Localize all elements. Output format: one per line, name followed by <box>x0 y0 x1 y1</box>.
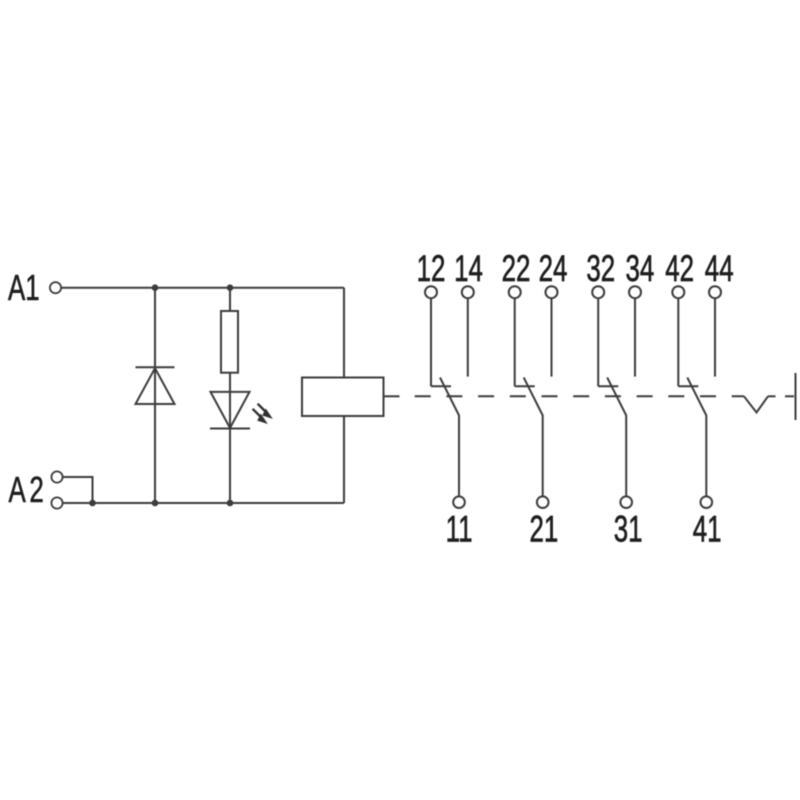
svg-text:14: 14 <box>454 247 483 289</box>
svg-text:11: 11 <box>446 508 473 550</box>
svg-text:24: 24 <box>539 247 568 289</box>
svg-text:22: 22 <box>502 247 531 289</box>
svg-text:32: 32 <box>586 247 615 289</box>
svg-text:A2: A2 <box>9 470 44 510</box>
svg-text:42: 42 <box>665 247 694 289</box>
svg-text:21: 21 <box>529 508 558 550</box>
svg-text:31: 31 <box>614 508 643 550</box>
svg-text:41: 41 <box>693 508 722 550</box>
svg-text:A1: A1 <box>8 268 40 308</box>
svg-text:34: 34 <box>625 247 654 289</box>
svg-text:44: 44 <box>705 247 734 289</box>
svg-text:12: 12 <box>417 247 446 289</box>
